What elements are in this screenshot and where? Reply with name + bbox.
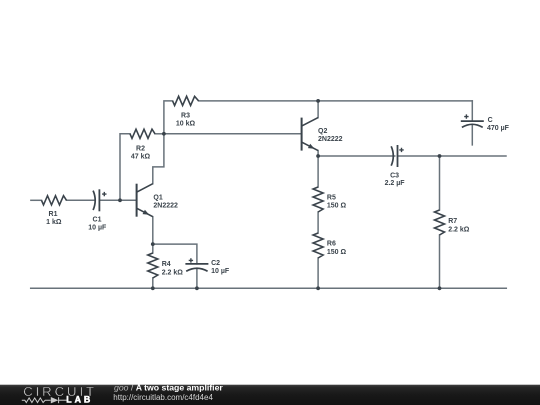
node rail R7 [438,286,442,290]
capacitor C3 plus sign [399,148,403,152]
wire R7 top lead [439,156,441,210]
svg-text:R1: R1 [49,211,58,218]
node rail C2 [195,286,199,290]
capacitor C2 plus sign [189,258,193,262]
svg-text:C1: C1 [93,217,102,224]
wire Q2 emitter to output node [317,151,319,156]
resistor R7 [435,210,445,235]
transistor Q1 collector and emitter legs [137,184,153,217]
transistor Q2 collector and emitter legs [302,118,319,151]
svg-text:Q2: Q2 [318,128,327,135]
svg-text:2.2 kΩ: 2.2 kΩ [448,226,470,233]
svg-text:10 kΩ: 10 kΩ [176,120,196,127]
wire R4 node to C2 top [153,244,197,264]
transistor Q2 emitter arrow [308,144,315,149]
capacitor C1 straight plate [98,189,100,211]
resistor R2 [130,129,155,138]
svg-text:10 µF: 10 µF [88,225,107,232]
resistor R1 [42,196,67,205]
capacitor C1 curved plate [93,191,95,210]
svg-text:2N2222: 2N2222 [318,136,343,143]
svg-text:470 µF: 470 µF [487,125,510,132]
resistor R4 [148,253,158,278]
svg-text:C: C [488,117,493,124]
svg-text:Q1: Q1 [153,194,162,201]
capacitor C2 straight plate [185,263,208,265]
wire input to R1 [31,199,42,201]
svg-text:47 kΩ: 47 kΩ [131,154,151,161]
node rail R4 [151,286,155,290]
capacitor C curved plate [462,124,483,127]
transistor Q1 base bar [136,184,138,217]
wire mid node down jog to Q1 collector [153,134,164,184]
svg-text:R6: R6 [327,241,336,248]
wire R3 left lead and drop to mid node [164,101,173,134]
wire R4 bottom lead [152,278,154,288]
wire Q2 collector to top rail [317,101,319,118]
wire R6 bottom lead [317,258,319,288]
logo resistor zigzag glyph [22,397,67,403]
resistor R3 [173,96,199,105]
node Q1 base junction [118,198,122,202]
node top rail Q2 collector [316,99,320,103]
wire R1 to C1 [67,199,95,201]
resistor R6 [313,233,323,258]
node output R7 top [438,154,442,158]
node Q2 emitter output [316,154,320,158]
svg-text:1 kΩ: 1 kΩ [46,219,62,226]
wire R2 left corner drop to Q1 base node [120,134,130,201]
capacitor C3 straight plate [397,145,399,167]
svg-text:R7: R7 [448,218,457,225]
wire R5 to R6 [317,212,319,233]
transistor Q2 base bar [301,118,303,151]
svg-text:150 Ω: 150 Ω [327,249,347,256]
wire ground rail [31,287,507,289]
wire Q1 emitter down to R4 node [152,217,154,244]
capacitor C straight plate [461,120,484,122]
logo diode triangle [51,397,59,403]
svg-text:R5: R5 [327,194,336,201]
wire R2 right to mid node [155,133,164,135]
wire C bottom stub [471,125,473,145]
svg-text:2.2 kΩ: 2.2 kΩ [162,269,184,276]
wire C1 to Q1 base through node [99,199,136,201]
capacitor C1 plus sign [102,192,106,196]
transistor Q1 emitter arrow [143,210,150,215]
svg-text:http://circuitlab.com/c4fd4e4: http://circuitlab.com/c4fd4e4 [113,393,213,402]
wire mid node to Q2 base [164,133,302,135]
svg-text:R4: R4 [162,261,171,268]
svg-text:C2: C2 [211,260,220,267]
wire top rail R3 to C corner [199,100,473,102]
wire C top lead [471,101,473,121]
wire R5 top lead [317,156,319,187]
footer bar [0,385,540,405]
wire R4 top lead [152,244,154,253]
wire output right end [440,155,507,157]
svg-text:R3: R3 [181,112,190,119]
wire C3 to R7 node [398,155,440,157]
resistor R5 [313,187,323,212]
wire output node to C3 [318,155,395,157]
svg-text:150 Ω: 150 Ω [327,203,347,210]
svg-text:goo / A two stage amplifier: goo / A two stage amplifier [114,383,223,393]
svg-text:C3: C3 [390,173,399,180]
capacitor C plus sign [464,114,468,118]
node Q1 emitter R4 [151,242,155,246]
svg-text:R2: R2 [136,146,145,153]
node mid junction R2 R3 [162,132,166,136]
wire C2 bottom lead [196,268,198,288]
capacitor C2 curved plate [186,268,207,271]
capacitor C3 curved plate [391,146,393,165]
svg-text:10 µF: 10 µF [211,268,230,275]
svg-text:2N2222: 2N2222 [153,203,178,210]
node rail R6 [316,286,320,290]
svg-text:2.2 µF: 2.2 µF [385,180,406,187]
svg-text:LAB: LAB [66,395,93,405]
wire R7 bottom lead [439,235,441,288]
